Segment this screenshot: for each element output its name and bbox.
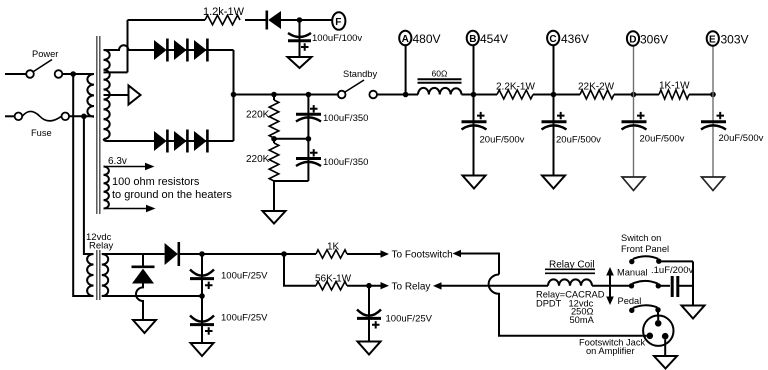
ground doubler cap: [191, 343, 214, 356]
inductor relay coil: [545, 260, 595, 286]
node selector arrow manual/pedal: [606, 267, 647, 306]
svg-text:100uF/350: 100uF/350: [323, 113, 368, 124]
node D junction: [631, 92, 637, 98]
wire node D riser: [633, 46, 635, 95]
node arrow to relay: [381, 282, 390, 289]
node doubler output: [199, 251, 205, 257]
svg-text:303V: 303V: [721, 33, 749, 47]
note relay data text: [536, 290, 605, 326]
svg-text:Pedal: Pedal: [618, 296, 642, 306]
wire AC line in to power switch: [5, 73, 26, 75]
wire bias riser: [127, 20, 129, 72]
node 220K branch: [271, 92, 277, 98]
wire standby to node A: [377, 94, 418, 96]
node A junction: [403, 92, 409, 98]
svg-text:To Relay: To Relay: [392, 282, 431, 293]
svg-text:100uF/25V: 100uF/25V: [386, 314, 433, 325]
wire T2 secondary bottom to midpoint: [102, 295, 202, 297]
wire pedal contact to jack pin: [657, 310, 659, 316]
wire ground bus: [692, 261, 694, 305]
note heater resistors text: [112, 176, 232, 201]
svg-text:to ground on the heaters: to ground on the heaters: [112, 189, 232, 201]
wire bias diode to terminal F: [281, 19, 332, 21]
wire HV secondary bias tap: [104, 71, 128, 73]
svg-text:100uF/350: 100uF/350: [323, 157, 368, 168]
svg-text:20uF/500v: 20uF/500v: [556, 135, 601, 146]
node divider middle: [271, 136, 277, 142]
resistor 1K-1W: [659, 81, 690, 100]
svg-text:DPDT: DPDT: [536, 299, 562, 309]
transformer T2 12vdc relay label: [86, 232, 114, 252]
svg-text:C: C: [549, 34, 556, 45]
svg-text:Front Panel: Front Panel: [621, 244, 669, 254]
node pedal contact pair: [629, 305, 661, 313]
svg-text:306V: 306V: [640, 33, 668, 47]
diode rectifier bottom 1: [154, 130, 167, 153]
wire to node E: [689, 94, 713, 96]
svg-text:2.2K-1W: 2.2K-1W: [496, 82, 535, 93]
wire manual contact to ground bus: [659, 260, 693, 262]
terminal D 306V: [627, 31, 668, 46]
terminal B 454V: [467, 31, 508, 46]
switch Standby: [338, 69, 378, 98]
diode rectifier top 3: [194, 39, 207, 62]
transformer T2 core: [97, 250, 100, 300]
svg-text:60Ω: 60Ω: [432, 69, 448, 79]
svg-text:Power: Power: [32, 49, 58, 59]
svg-text:20uF/500v: 20uF/500v: [719, 133, 764, 144]
ground footswitch jack: [654, 356, 677, 369]
diode series doubler: [165, 242, 179, 266]
capacitor 20uF/500v node D: [622, 95, 685, 178]
node filter cap branch: [306, 92, 312, 98]
wire to node D: [614, 94, 659, 96]
wire node E riser: [712, 46, 714, 95]
capacitor 20uF/500v node E: [701, 95, 764, 178]
wire relay feed to coil: [442, 285, 549, 287]
node arrow from relay feed: [433, 282, 442, 289]
wire bottom rectifier output: [166, 140, 234, 142]
wire 56K to relay arrow: [347, 285, 381, 287]
svg-text:436V: 436V: [561, 32, 589, 46]
node arrow from footswitch return: [453, 250, 462, 257]
wire T2 secondary top to rectifier: [102, 253, 165, 255]
svg-text:100 ohm resistors: 100 ohm resistors: [112, 176, 200, 188]
svg-text:F: F: [335, 17, 341, 28]
wire doubler output: [179, 253, 316, 255]
svg-text:Manual: Manual: [617, 268, 648, 278]
ground relay filter cap: [358, 342, 381, 355]
transformer T1 6.3v heater winding: [104, 167, 109, 209]
wire fuse to transformer primary bottom: [69, 115, 94, 117]
svg-text:Switch on: Switch on: [621, 233, 661, 243]
ground cap B: [463, 176, 486, 189]
svg-text:on Amplifier: on Amplifier: [586, 346, 635, 356]
svg-text:A: A: [402, 34, 409, 45]
node 6.3v heater tap bottom: [104, 205, 156, 212]
wire node B riser: [473, 46, 475, 95]
svg-text:Relay: Relay: [89, 241, 114, 252]
terminal F: [332, 12, 345, 30]
wire divider middle to cap middle: [274, 138, 308, 140]
svg-text:22K-2W: 22K-2W: [578, 82, 615, 93]
diode rectifier top 1: [154, 39, 167, 62]
ground bias cap: [288, 57, 312, 68]
resistor 2.2K-1W: [496, 82, 535, 100]
node E junction: [710, 92, 716, 98]
node footswitch feed branch: [281, 251, 287, 257]
capacitor 100uF/100v bias: [288, 20, 362, 57]
wire HV secondary bottom to rectifier: [104, 139, 155, 141]
node B+ junction: [231, 92, 237, 98]
transformer T1 core: [97, 36, 100, 214]
ground shunt diode: [133, 320, 156, 333]
wire 1K to arrow: [347, 253, 381, 255]
node 6.3v heater tap top: [104, 156, 155, 170]
node fuse junction: [81, 114, 87, 120]
wire AC neutral in to fuse: [5, 115, 15, 117]
resistor 220K lower: [246, 139, 279, 181]
svg-text:220K: 220K: [246, 154, 270, 165]
svg-text:To Footswitch: To Footswitch: [392, 250, 453, 261]
svg-text:220K: 220K: [246, 110, 270, 121]
ground cap C: [542, 176, 565, 189]
node doubler midpoint: [199, 293, 205, 299]
wire fuse line down to relay transformer primary top: [84, 116, 94, 254]
svg-text:E: E: [709, 35, 716, 46]
wire top rectifier output: [166, 49, 234, 51]
transformer T1 HV secondary winding: [104, 50, 110, 139]
ground switch bus: [682, 306, 705, 319]
wire footswitch return: [461, 254, 499, 275]
node main contact pair: [629, 281, 661, 289]
transformer T1 primary winding: [87, 74, 94, 117]
diode rectifier top 2: [174, 39, 187, 62]
inductor choke 60 ohm: [418, 69, 462, 95]
capacitor .1uF/200v: [651, 265, 693, 297]
capacitor 100uF/350 upper: [296, 95, 368, 139]
capacitor 100uF/25V lower: [190, 296, 268, 343]
svg-text:.1uF/200v: .1uF/200v: [651, 265, 693, 276]
wire divider bottom to ground: [273, 181, 275, 211]
wire cap to ground bus: [679, 285, 693, 287]
svg-text:D: D: [629, 35, 636, 46]
wire shunt diode to ground with hop: [136, 284, 143, 321]
svg-text:1K: 1K: [327, 242, 340, 253]
svg-text:100uF/100v: 100uF/100v: [312, 33, 362, 44]
node B junction: [471, 92, 477, 98]
capacitor 100uF/350 lower: [296, 139, 368, 181]
fuse: [15, 111, 70, 138]
resistor 1.2k-1W: [128, 6, 245, 25]
note switch location text: [621, 233, 669, 254]
wire rectifier output bus: [233, 50, 235, 141]
diode shunt (cathode up): [132, 254, 155, 284]
diode rectifier bottom 2: [174, 130, 187, 153]
ground cap E: [702, 177, 725, 191]
svg-text:480V: 480V: [413, 32, 441, 46]
resistor 56K-1W: [315, 274, 352, 290]
node arrow to footswitch: [381, 250, 390, 257]
svg-text:454V: 454V: [480, 32, 508, 46]
wire power line down to relay transformer primary bottom: [73, 74, 93, 296]
node bias output: [297, 17, 303, 23]
svg-text:100uF/25V: 100uF/25V: [221, 271, 268, 282]
svg-text:20uF/500v: 20uF/500v: [640, 134, 685, 145]
transformer T2 secondary winding: [102, 254, 108, 296]
switch Power: [26, 49, 62, 78]
diode rectifier bottom 3: [194, 130, 207, 153]
node power junction: [70, 71, 76, 77]
capacitor 100uF/25V upper: [190, 254, 268, 296]
svg-text:B: B: [469, 34, 476, 45]
node manual contact pair: [629, 256, 661, 264]
wire node C riser: [553, 46, 555, 95]
terminal E 303V: [707, 31, 749, 46]
wire HV secondary top to rectifier (with hop over bias wire): [104, 45, 155, 50]
capacitor 20uF/500v node B: [462, 95, 525, 176]
node center tap arrow: [104, 86, 141, 105]
resistor 220K upper: [246, 95, 279, 139]
svg-text:Standby: Standby: [343, 69, 377, 79]
wire power switch to transformer primary top: [63, 73, 95, 75]
svg-text:Fuse: Fuse: [31, 128, 52, 138]
resistor 22K-2W: [578, 82, 615, 100]
terminal A 480V: [399, 31, 440, 46]
resistor 1K: [316, 242, 347, 259]
capacitor 100uF/25V relay filter: [357, 286, 433, 342]
capacitor 20uF/500v node C: [542, 95, 602, 176]
ground cap D: [622, 177, 645, 191]
wire node A riser: [405, 46, 407, 95]
terminal C 436V: [547, 31, 589, 46]
wire contact to cap: [658, 285, 670, 287]
wire footswitch return hop over relay wire: [489, 275, 643, 336]
svg-text:50mA: 50mA: [570, 315, 595, 325]
wire to node C: [533, 94, 580, 96]
svg-text:1K-1W: 1K-1W: [659, 81, 690, 92]
svg-text:20uF/500v: 20uF/500v: [480, 135, 525, 146]
node cap middle: [306, 136, 312, 142]
svg-text:100uF/25V: 100uF/25V: [221, 313, 268, 324]
node 56K cap branch: [366, 283, 372, 289]
wire 56K branch: [284, 254, 316, 286]
wire relay coil to selector: [592, 285, 630, 287]
wire cap bottom return: [274, 180, 308, 182]
svg-text:6.3v: 6.3v: [108, 156, 127, 167]
wire choke to node B: [462, 94, 498, 96]
diode bias (cathode left): [267, 11, 281, 30]
connector footswitch jack: [579, 316, 674, 357]
wire B+ rail to standby switch: [234, 94, 339, 96]
node C junction: [551, 92, 557, 98]
wire resistor to bias diode: [245, 19, 266, 21]
ground divider: [263, 211, 286, 224]
transformer T2 primary winding: [87, 254, 93, 296]
